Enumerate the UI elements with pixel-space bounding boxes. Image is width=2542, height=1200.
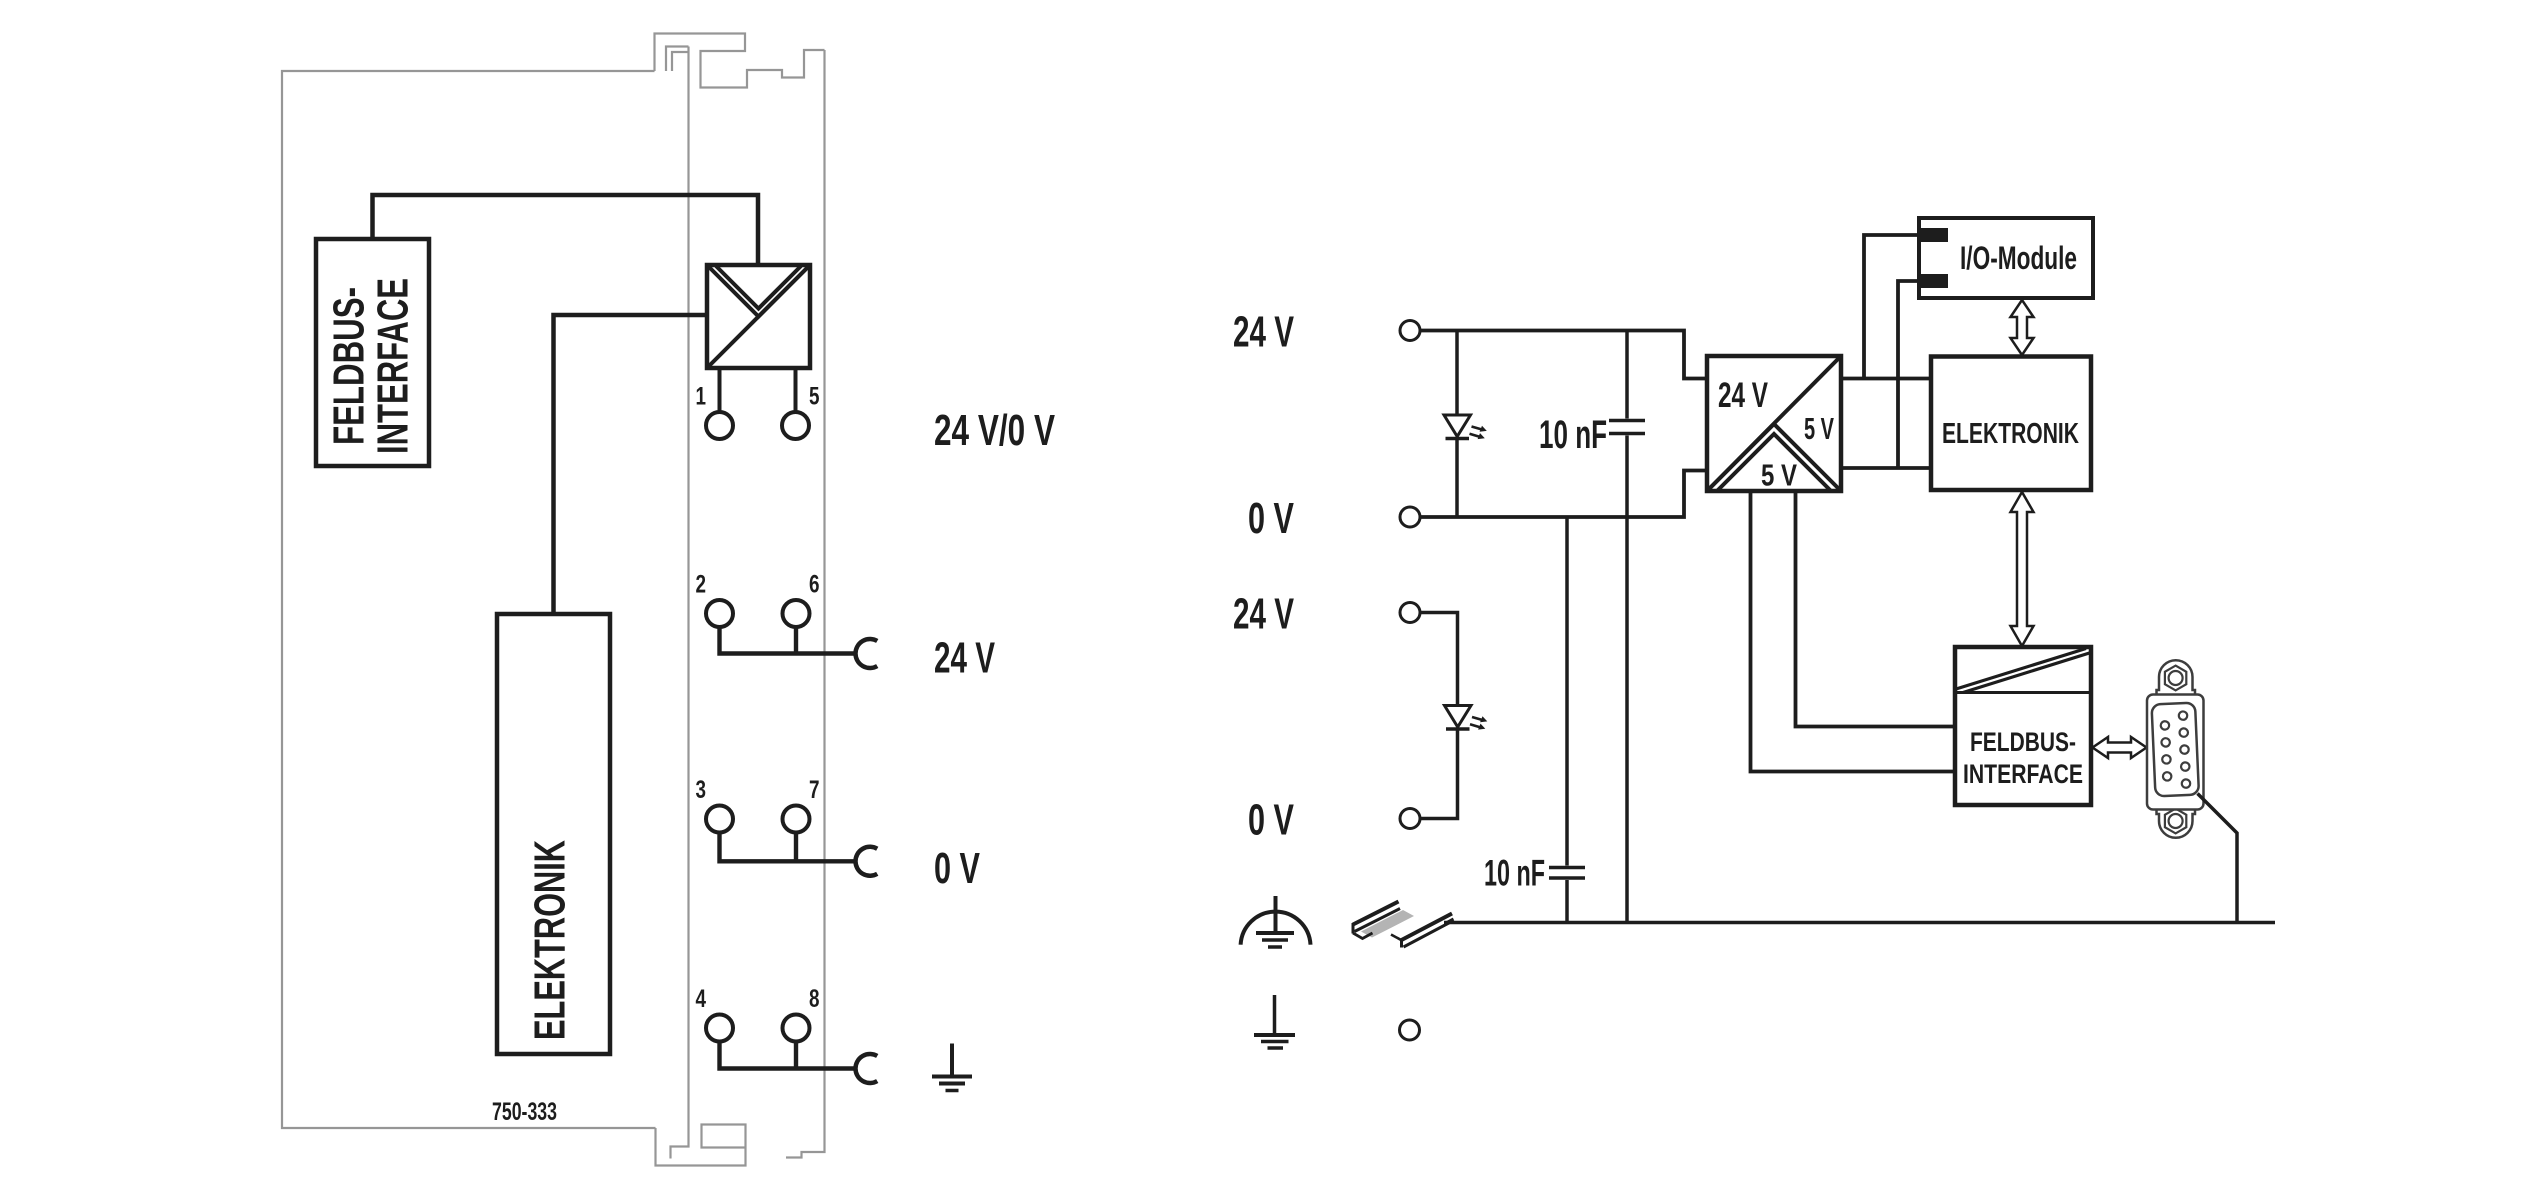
contact 4 (706, 1015, 733, 1042)
contact 1 (706, 412, 733, 439)
svg-text:3: 3 (696, 776, 707, 804)
elektronik block left (497, 614, 610, 1054)
wire converter to elektronik upper (1841, 377, 1931, 381)
svg-text:INTERFACE: INTERFACE (1963, 759, 2083, 789)
svg-text:2: 2 (696, 571, 707, 599)
terminal 24V top (1400, 321, 1420, 341)
svg-text:ELEKTRONIK: ELEKTRONIK (1942, 418, 2079, 450)
contact 8 (783, 1015, 810, 1042)
io module block (1919, 218, 2093, 298)
module housing top tab (666, 47, 689, 72)
terminal 0V top (1400, 507, 1420, 527)
arrow io module to elektronik (2011, 300, 2034, 355)
dsub cable (2198, 794, 2238, 923)
clamp contact earth (856, 1054, 878, 1083)
svg-text:0 V: 0 V (934, 844, 980, 893)
svg-text:24 V: 24 V (1718, 376, 1768, 415)
module housing bottom profile (656, 1125, 746, 1166)
fieldbus interface block left (316, 239, 429, 466)
svg-text:I/O-Module: I/O-Module (1960, 240, 2077, 276)
contact 5 (782, 412, 809, 439)
LED 1 (1444, 331, 1487, 518)
module housing outer box (282, 71, 656, 1128)
clamp contact 24V (856, 639, 878, 668)
power converter right 24V 5V 5V (1707, 356, 1841, 491)
svg-text:8: 8 (809, 985, 820, 1013)
wire fieldbus to converter (373, 195, 759, 265)
dsub connector (2147, 660, 2204, 838)
module right side wall (786, 50, 825, 1158)
power converter left (707, 265, 810, 368)
svg-text:24 V/0 V: 24 V/0 V (934, 406, 1055, 455)
clamp contact 0V (856, 847, 878, 876)
module housing top profile (655, 34, 825, 88)
wire contacts 3 7 to 0V clamp (720, 833, 856, 862)
wire converter to contacts 1 5 (720, 368, 796, 412)
terminal 24V bottom (1400, 603, 1420, 623)
capacitor C1 10nF (1609, 331, 1645, 922)
elektronik block right (1931, 357, 2091, 491)
contact 7 (783, 806, 810, 833)
wire to io module pin 1 (1864, 235, 1919, 379)
svg-text:5 V: 5 V (1761, 458, 1797, 493)
wire contacts 2 6 to 24V clamp (720, 627, 856, 654)
capacitor C2 10nF (1549, 517, 1585, 923)
svg-text:0 V: 0 V (1248, 796, 1294, 845)
shield ground bus (1444, 921, 2275, 925)
module left side wall (671, 47, 689, 1159)
wire converter to feldbus lower (1751, 491, 1956, 772)
earth symbol left (932, 1044, 972, 1091)
terminal 0V bottom (1400, 809, 1420, 829)
wire converter to feldbus upper (1796, 491, 1956, 727)
svg-text:7: 7 (809, 776, 820, 804)
wire contacts 4 8 to earth clamp (720, 1042, 856, 1069)
svg-text:5: 5 (809, 383, 820, 411)
svg-text:6: 6 (809, 571, 820, 599)
svg-text:10 nF: 10 nF (1539, 413, 1607, 457)
svg-text:0 V: 0 V (1248, 494, 1294, 543)
svg-text:750-333: 750-333 (492, 1098, 557, 1126)
wire 0V rail (1421, 471, 1708, 518)
svg-text:ELEKTRONIK: ELEKTRONIK (526, 840, 575, 1040)
wire converter to elektronik lower (1841, 466, 1931, 470)
svg-text:FELDBUS-: FELDBUS- (1970, 727, 2076, 757)
svg-text:24 V: 24 V (934, 634, 995, 683)
contact 6 (783, 600, 810, 627)
functional earth symbol (1241, 896, 1311, 947)
svg-text:5 V: 5 V (1804, 411, 1834, 446)
svg-text:24 V: 24 V (1233, 308, 1294, 357)
arrow elektronik to feldbus (2011, 492, 2034, 646)
svg-text:FELDBUS-: FELDBUS- (325, 287, 374, 445)
feldbus interface block right (1955, 647, 2091, 805)
svg-text:10 nF: 10 nF (1484, 853, 1545, 894)
contact 2 (706, 600, 733, 627)
wire elektronik to converter (554, 315, 708, 614)
open terminal bottom (1400, 1020, 1420, 1040)
contact 3 (706, 806, 733, 833)
svg-text:1: 1 (696, 383, 707, 411)
LED 2 (1421, 613, 1488, 819)
earth symbol bottom (1254, 995, 1295, 1048)
wire to io module pin 2 (1898, 281, 1919, 468)
svg-text:24 V: 24 V (1233, 590, 1294, 639)
svg-text:4: 4 (696, 985, 707, 1013)
din rail clamp (1353, 902, 1454, 948)
arrow feldbus to dsub (2093, 737, 2147, 758)
svg-text:INTERFACE: INTERFACE (369, 278, 418, 454)
wire 24V rail (1421, 331, 1708, 379)
